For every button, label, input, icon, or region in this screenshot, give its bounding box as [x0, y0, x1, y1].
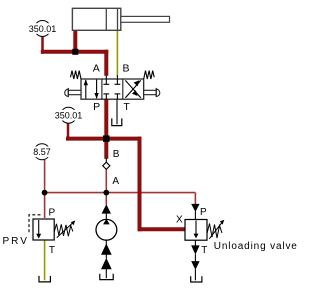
svg-text:T: T — [201, 245, 207, 256]
svg-text:T: T — [123, 101, 130, 113]
svg-text:8.57: 8.57 — [33, 147, 51, 157]
svg-text:P: P — [200, 207, 207, 218]
svg-text:X: X — [176, 215, 183, 226]
svg-text:B: B — [113, 149, 120, 160]
svg-text:B: B — [122, 63, 129, 75]
svg-text:T: T — [49, 245, 55, 256]
svg-text:A: A — [93, 63, 100, 75]
svg-text:350.01: 350.01 — [55, 111, 83, 121]
svg-text:A: A — [112, 176, 119, 187]
svg-text:Unloading valve: Unloading valve — [214, 241, 298, 252]
svg-text:P: P — [93, 101, 100, 113]
svg-text:350.01: 350.01 — [29, 24, 57, 34]
svg-text:P: P — [48, 208, 55, 219]
svg-text:PRV: PRV — [3, 236, 29, 247]
